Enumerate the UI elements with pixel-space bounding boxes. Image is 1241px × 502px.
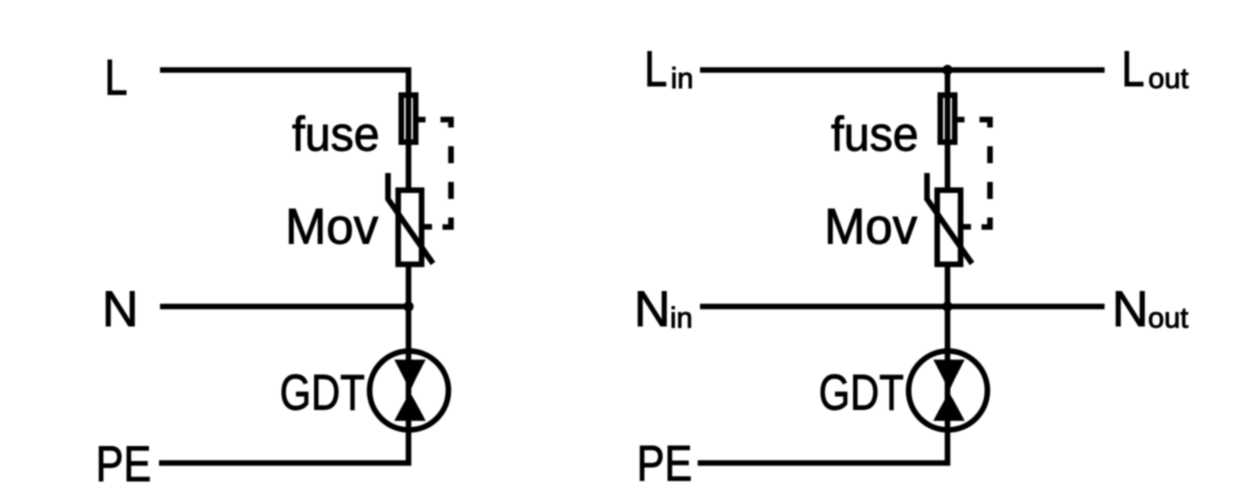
svg-text:PE: PE xyxy=(96,435,152,492)
svg-text:L: L xyxy=(105,49,128,106)
fuse tick (left) xyxy=(418,117,426,123)
svg-text:fuse: fuse xyxy=(831,108,919,162)
svg-text:in: in xyxy=(671,63,694,95)
varistor Mov (left) xyxy=(388,173,433,264)
node N junction (right) xyxy=(942,301,952,311)
wire L (left) xyxy=(160,70,409,189)
svg-text:L: L xyxy=(644,40,667,97)
dashed link bracket (left) xyxy=(441,120,452,227)
wire N (right) xyxy=(700,304,1105,310)
svg-text:L: L xyxy=(1122,40,1145,97)
dashed link bracket (right) xyxy=(980,120,991,227)
svg-text:GDT: GDT xyxy=(819,364,904,421)
varistor Mov (right) xyxy=(927,173,972,264)
svg-text:out: out xyxy=(1148,63,1188,95)
wire MOV-to-PE (right) xyxy=(698,265,948,463)
fuse F2 (right) xyxy=(940,95,954,142)
GDT arrows (right) xyxy=(933,360,964,421)
fuse tick (right) xyxy=(957,117,965,123)
svg-text:N: N xyxy=(1112,280,1148,337)
svg-text:out: out xyxy=(1148,303,1188,335)
svg-text:PE: PE xyxy=(637,435,693,492)
svg-text:GDT: GDT xyxy=(280,364,365,421)
svg-text:Mov: Mov xyxy=(824,198,917,254)
wire L (right) xyxy=(700,67,1105,73)
wire MOV-to-PE (left) xyxy=(159,265,409,463)
GDT arrows (left) xyxy=(394,360,425,421)
GDT tube (right) xyxy=(909,351,988,430)
wire fuse drop (right) xyxy=(945,70,951,189)
node N junction (left) xyxy=(403,301,413,311)
GDT tube (left) xyxy=(370,351,449,430)
fuse F1 (left) xyxy=(401,95,415,142)
svg-text:Mov: Mov xyxy=(285,198,378,254)
svg-text:in: in xyxy=(670,303,693,335)
svg-text:N: N xyxy=(102,280,138,337)
wire N (left) xyxy=(160,304,409,310)
svg-text:fuse: fuse xyxy=(292,108,380,162)
svg-text:N: N xyxy=(634,280,670,337)
node L junction (right) xyxy=(942,65,952,75)
